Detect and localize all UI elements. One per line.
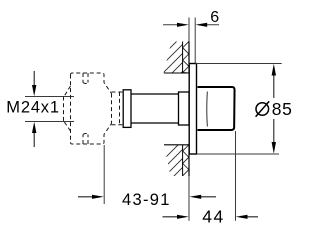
- port end cap: [63, 97, 65, 122]
- wall boundary line top (rough/finish): [182, 42, 184, 74]
- spindle shaft bottom line: [131, 122, 179, 124]
- dimension Ø85 line with arrows: [272, 64, 276, 154]
- escutcheon plate: [189, 64, 196, 155]
- extension line 44 right: [235, 131, 237, 221]
- dimension M24x1 arrow down: [32, 71, 36, 96]
- svg-text:M24x1: M24x1: [6, 99, 60, 117]
- dimension 44 right arrow: [236, 215, 258, 219]
- wall finish layer hatch bottom (zigzag): [183, 145, 189, 176]
- wall face solid segment top: [188, 42, 190, 74]
- dimension 6 line right part: [195, 23, 219, 27]
- hex cap bottom outline: [71, 124, 112, 145]
- hex facet lines top: [83, 73, 88, 84]
- dimension Ø85 extension line top: [196, 63, 282, 65]
- bushing block at wall: [179, 92, 190, 125]
- valve body (dashed hidden outline): [64, 73, 124, 144]
- dimension 44 left arrow: [163, 215, 189, 219]
- spindle housing top: [112, 91, 124, 93]
- label Ø85: [256, 99, 293, 119]
- dimension Ø85 extension line bottom: [197, 153, 279, 155]
- extension line escutcheon front (6 dim): [194, 18, 196, 64]
- body left edge: [70, 75, 72, 143]
- left chamfer bottom: [64, 122, 71, 132]
- knob taper arc: [206, 92, 209, 127]
- dimension 43-91 left arrow: [78, 195, 104, 199]
- hex cap top outline: [71, 73, 112, 94]
- dimension 43-91 right arrow: [189, 195, 216, 199]
- wall hole bottom edge: [164, 144, 189, 146]
- extension line wall face (full): [188, 18, 190, 221]
- body right edge: [111, 94, 113, 124]
- wall hatch bottom sparse: [158, 137, 186, 201]
- collar: [123, 90, 131, 128]
- spindle shaft top line: [131, 93, 179, 95]
- dimension 6 line left part: [163, 23, 189, 27]
- wall hole top edge: [164, 72, 189, 74]
- dimension M24x1 arrow up: [32, 122, 36, 147]
- wall finish layer hatch top (zigzag): [183, 42, 189, 74]
- wall hatch top sparse: [158, 32, 186, 105]
- dimension M24x1 extension line bottom: [25, 121, 74, 123]
- wall boundary line bottom (rough/finish): [182, 145, 184, 176]
- hex facet lines bottom: [83, 134, 88, 145]
- left chamfer top: [64, 86, 71, 97]
- spindle housing end: [119, 92, 121, 125]
- svg-text:6: 6: [210, 9, 219, 26]
- dimension M24x1 extension line top: [25, 96, 74, 98]
- svg-text:44: 44: [202, 207, 225, 227]
- wall face solid segment bottom: [188, 145, 190, 176]
- extension line 43-91 left: [103, 145, 105, 204]
- svg-text:85: 85: [272, 99, 293, 119]
- knob (cone): [198, 87, 235, 130]
- spindle housing bottom: [112, 124, 124, 126]
- svg-text:43-91: 43-91: [122, 191, 171, 209]
